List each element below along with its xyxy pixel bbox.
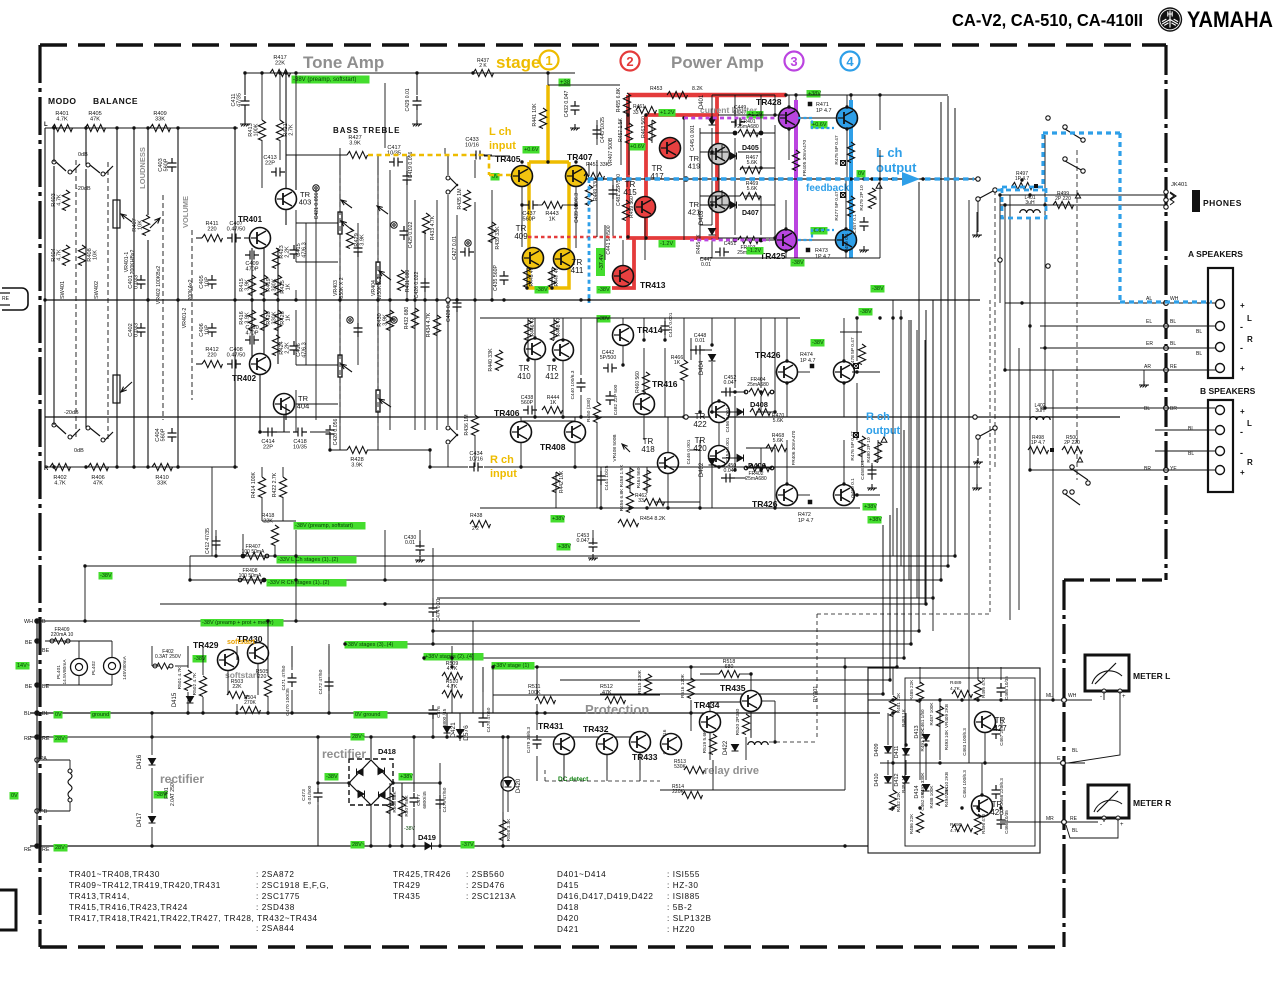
svg-text:C473: C473 [301, 789, 307, 801]
svg-text:C461 1/50: C461 1/50 [920, 709, 925, 731]
svg-text:TR413,TR414,: TR413,TR414, [69, 892, 130, 901]
svg-text:VR401-2: VR401-2 [182, 308, 188, 329]
wire fan vertical [896, 508, 898, 667]
svg-text:10/16: 10/16 [469, 457, 483, 463]
svg-text:0.47/50: 0.47/50 [227, 353, 246, 359]
svg-text:R: R [1247, 335, 1253, 344]
svg-text:BR: BR [1170, 406, 1177, 412]
wire junction speaker [1164, 346, 1169, 351]
wire -33V Rch bus [190, 579, 941, 581]
svg-text:0dB: 0dB [78, 152, 88, 158]
svg-text:5.6K: 5.6K [773, 438, 784, 444]
svg-text:D418: D418 [378, 747, 396, 756]
resistor R416 [248, 310, 255, 331]
marker R471 [808, 102, 813, 107]
svg-text:C441 5P/500: C441 5P/500 [606, 225, 612, 254]
voltage -37V [461, 841, 475, 849]
svg-text:input: input [489, 140, 516, 152]
svg-text:B: B [42, 619, 46, 625]
border frame jog [1064, 578, 1166, 581]
voltage -1.2V [659, 240, 676, 248]
svg-text:+0.6V: +0.6V [524, 147, 539, 153]
rectifier bridge wires [318, 782, 349, 784]
blue dashed path to speakers [1002, 187, 1046, 218]
svg-text:TR405: TR405 [495, 154, 521, 164]
svg-text:C425 0.022: C425 0.022 [408, 221, 414, 248]
svg-text:YAMAHA: YAMAHA [1187, 7, 1273, 32]
svg-text:BL: BL [1072, 828, 1078, 834]
diode D405 [730, 153, 737, 160]
svg-text:R459 560: R459 560 [629, 196, 635, 218]
wire L input bus [45, 127, 238, 129]
svg-text:R516 120K: R516 120K [680, 673, 686, 698]
svg-text:28V~: 28V~ [352, 842, 365, 848]
svg-text:R520 2P330: R520 2P330 [735, 708, 741, 735]
wire limiter bottom [718, 237, 775, 239]
xbox R475 [841, 161, 846, 166]
svg-text:14V~: 14V~ [17, 663, 30, 669]
resistor R409 [150, 124, 171, 131]
svg-text:R463 560: R463 560 [641, 116, 647, 138]
voltage -38V stages34 [345, 641, 408, 649]
svg-text:+: + [1240, 468, 1245, 477]
svg-text:47/6.3: 47/6.3 [302, 342, 308, 358]
wire junction speaker [1164, 468, 1169, 473]
stage-3 purple highlight line [794, 100, 798, 258]
voltage +38V bridge [399, 773, 413, 781]
diode D418d [358, 791, 365, 798]
svg-text:: 2SD476: : 2SD476 [466, 881, 505, 890]
stage marker 4 [841, 52, 860, 71]
wire power amp top rail [786, 94, 948, 96]
border frame right lower [1062, 580, 1065, 947]
diode D418b [379, 792, 386, 799]
capacitor C433 [471, 151, 485, 160]
svg-text:3.9K: 3.9K [245, 279, 251, 291]
svg-text:3uH: 3uH [1025, 200, 1035, 206]
svg-text:-: - [1240, 322, 1243, 332]
transistor TR406 [511, 422, 532, 443]
svg-text:R489: R489 [950, 680, 962, 686]
voltage -38V yellow [535, 286, 549, 294]
transistor TR423 blue [837, 108, 858, 129]
transistor TR403 [276, 189, 297, 210]
resistor R420 [260, 310, 267, 330]
resistor R412 [202, 360, 223, 367]
diode D403 [709, 229, 716, 236]
svg-text:BL: BL [24, 711, 31, 717]
wire bus [560, 679, 890, 681]
marker R472 [808, 500, 813, 505]
stage-4 blue highlight line [849, 100, 853, 258]
svg-text:BL: BL [42, 711, 49, 717]
svg-text:TR433: TR433 [632, 752, 658, 762]
wire VR404 linkage [377, 170, 379, 430]
svg-text:+38V: +38V [808, 91, 821, 97]
wire fan vertical [954, 108, 956, 556]
svg-text:C479 33/6.3: C479 33/6.3 [526, 727, 532, 753]
wire left edge vertical [36, 621, 38, 846]
svg-text:+38V stages (2)..(4): +38V stages (2)..(4) [425, 654, 474, 660]
svg-text:EL: EL [1146, 319, 1152, 325]
wire +38 top feed [245, 72, 575, 74]
svg-text:0.033: 0.033 [134, 323, 140, 337]
diode D401 [709, 119, 716, 126]
svg-text:5.6K: 5.6K [747, 186, 758, 192]
svg-text:C463 100/6.3: C463 100/6.3 [962, 728, 967, 756]
wire +38 spur [548, 84, 620, 86]
ground C430 [415, 556, 425, 562]
svg-text:+: + [1240, 301, 1245, 310]
resistor R415 [248, 275, 255, 296]
wire TR407-411 [575, 187, 577, 248]
svg-text:0V ground: 0V ground [355, 712, 380, 718]
svg-text:47/35: 47/35 [237, 93, 243, 107]
svg-text:PL402: PL402 [91, 661, 97, 675]
svg-text:C466 10/35: C466 10/35 [1004, 810, 1009, 834]
svg-text:403: 403 [299, 198, 312, 207]
relay contact after feedback line [976, 197, 980, 201]
ground C411 [240, 120, 250, 126]
svg-text:0.033: 0.033 [134, 275, 140, 289]
svg-text:PA: PA [40, 756, 47, 762]
svg-text:Power Amp: Power Amp [671, 53, 764, 72]
transistor TR417 [660, 138, 681, 159]
svg-text:ER: ER [1146, 341, 1153, 347]
ganged switch dashed linkage [75, 160, 77, 440]
svg-text:TR431: TR431 [538, 721, 564, 731]
svg-text:1P 4.7: 1P 4.7 [798, 518, 814, 524]
svg-text:L: L [1247, 419, 1252, 428]
transistor TR432 [597, 734, 618, 755]
svg-text:R465 1K: R465 1K [696, 234, 702, 254]
wire TR403 column [285, 73, 287, 188]
svg-text:A SPEAKERS: A SPEAKERS [1188, 249, 1243, 259]
svg-text:L: L [44, 122, 48, 128]
svg-text:3uH: 3uH [1035, 408, 1045, 414]
potentiometer VR403 body lower [338, 355, 342, 377]
right mid switches [998, 258, 1002, 262]
svg-text:4.7K: 4.7K [54, 481, 66, 487]
voltage -38V rect [154, 791, 168, 799]
fusible resistor FR402 [744, 466, 748, 470]
lamp PL402 [104, 658, 121, 675]
svg-text:R450 (330): R450 (330) [586, 398, 592, 422]
svg-text:560P: 560P [164, 158, 170, 171]
svg-text:: 2SC1775: : 2SC1775 [256, 892, 300, 901]
svg-text:AR: AR [1144, 364, 1151, 370]
diode D415 [187, 697, 194, 704]
svg-text:BE: BE [25, 684, 33, 690]
svg-text:R488 100K: R488 100K [929, 785, 934, 809]
wire +38V stages bus [424, 657, 904, 659]
transistor TR418 [658, 453, 679, 474]
svg-text:-37V: -37V [462, 842, 474, 848]
svg-text:0V: 0V [11, 793, 18, 799]
wire Rch coupling [484, 466, 510, 468]
diode D407 [730, 202, 737, 209]
svg-text:R502 4.7K: R502 4.7K [192, 672, 198, 695]
svg-text:1P 4.7: 1P 4.7 [800, 358, 816, 364]
xbox R477 [841, 193, 846, 198]
svg-text:220mA 10: 220mA 10 [51, 632, 74, 638]
svg-text:+38V: +38V [864, 504, 877, 510]
svg-text:10K: 10K [93, 250, 99, 260]
svg-text:0.01: 0.01 [695, 338, 705, 344]
svg-text:R478 5P 0.47: R478 5P 0.47 [850, 337, 856, 367]
svg-text:200KHBx2: 200KHBx2 [130, 249, 136, 274]
svg-text:47/6.3: 47/6.3 [302, 242, 308, 258]
svg-text:R495 470: R495 470 [981, 678, 986, 698]
svg-text:C474 0.01: C474 0.01 [436, 598, 442, 621]
LED D420 [501, 777, 515, 791]
fuse FR409 [50, 639, 54, 643]
svg-text:C435 560P: C435 560P [493, 264, 499, 290]
svg-text:25mA680: 25mA680 [745, 476, 767, 482]
protection box lines [493, 694, 660, 696]
svg-text:+38V: +38V [552, 516, 565, 522]
fuse F402 [153, 664, 157, 668]
svg-text:0.3AT 250V: 0.3AT 250V [155, 654, 182, 660]
transistor TR420 [709, 446, 730, 467]
transistor TR413 [613, 266, 634, 287]
wire DC detect dashed [545, 780, 660, 782]
pot VR404 wiper [377, 206, 388, 214]
svg-text:D415: D415 [172, 692, 178, 707]
svg-text:C446 0.001: C446 0.001 [686, 439, 692, 464]
svg-text:R460 560: R460 560 [635, 371, 641, 393]
svg-text:METER R: METER R [1133, 798, 1171, 808]
svg-text:TR429: TR429 [193, 640, 219, 650]
svg-text:BL: BL [1072, 748, 1078, 754]
svg-text:8.2K: 8.2K [692, 86, 703, 92]
transistor TR421 [709, 192, 730, 213]
wire R-ch signal bus [45, 416, 1120, 418]
svg-text:B SPEAKERS: B SPEAKERS [1200, 386, 1256, 396]
svg-text:-: - [1100, 822, 1102, 828]
potentiometer VR401-1 [113, 200, 120, 228]
resistor R405 [85, 124, 106, 131]
capacitor C410 [245, 336, 259, 345]
svg-text:D421: D421 [450, 722, 457, 738]
fusible resistor FR401 [733, 131, 737, 135]
blue dashed R471 link [798, 118, 834, 128]
wire L-ch output feedback [575, 178, 978, 180]
svg-text:WH: WH [24, 619, 33, 625]
resistor R426 [274, 310, 281, 330]
svg-text:R: R [1247, 458, 1253, 467]
protection base wires [563, 755, 565, 781]
xbox R478 [854, 364, 859, 369]
phones feed wires [1040, 194, 1166, 196]
svg-text:R433 4.7K: R433 4.7K [430, 215, 436, 240]
wire protection right [844, 658, 846, 790]
voltage +38V stages24 [424, 653, 484, 661]
voltage -38V preamp2 [294, 522, 366, 530]
svg-text:-33V R Ch stages (1)..(2): -33V R Ch stages (1)..(2) [268, 580, 330, 586]
ground relay1 [972, 231, 982, 237]
svg-text:D410: D410 [874, 773, 880, 786]
fusible resistor FR407 [241, 554, 245, 558]
svg-text:1K: 1K [286, 314, 292, 321]
capacitor C434 [469, 463, 483, 472]
wire speaker to meter vertical [1052, 370, 1054, 700]
svg-text:-20dB: -20dB [64, 410, 79, 416]
svg-text:220: 220 [207, 353, 216, 359]
wire relay dashed run [817, 613, 990, 615]
ground C458 [867, 484, 877, 490]
svg-text:R436 1M: R436 1M [464, 414, 470, 435]
svg-text:+1.2V: +1.2V [660, 110, 675, 116]
wire left supply vertical [84, 566, 86, 621]
capacitor C424b [354, 323, 363, 337]
svg-text:R440 33K: R440 33K [488, 348, 494, 372]
switch SW401 contacts [52, 160, 56, 164]
svg-text:R438: R438 [470, 513, 483, 519]
svg-text:D576: D576 [463, 725, 470, 741]
svg-text:C470 100/35: C470 100/35 [285, 688, 291, 716]
blue dashed through R497 [997, 189, 1048, 192]
svg-text:47K: 47K [93, 481, 103, 487]
svg-text:D409: D409 [874, 743, 880, 756]
svg-text:415: 415 [623, 188, 637, 197]
svg-text:Protection: Protection [585, 702, 649, 717]
wire tone verticals [339, 148, 341, 170]
svg-text:R501 4.7K: R501 4.7K [177, 666, 183, 689]
svg-text:TR435: TR435 [720, 683, 746, 693]
svg-text:428: 428 [990, 808, 1004, 817]
svg-text:10P: 10P [205, 325, 211, 335]
supply mid wires [432, 598, 434, 602]
svg-text:2.7K: 2.7K [289, 124, 295, 136]
potentiometer VR402 [150, 218, 160, 228]
svg-text:0V: 0V [55, 712, 62, 718]
svg-text:+: + [1240, 364, 1245, 373]
svg-text:FR405 30mA470: FR405 30mA470 [802, 140, 808, 177]
svg-text:4.7K: 4.7K [57, 249, 63, 261]
wire -38V rch rail [480, 317, 800, 319]
voltage -38V stage2 [597, 286, 611, 294]
open junction circles [684, 177, 688, 181]
svg-text:RE: RE [42, 736, 50, 742]
transistor TR426 lower [777, 485, 798, 506]
wire junction speaker [1164, 368, 1169, 373]
svg-text:Tone Amp: Tone Amp [303, 53, 384, 72]
transistor TR414 [613, 325, 634, 346]
svg-text:R451 33K: R451 33K [586, 162, 610, 168]
svg-text:421: 421 [688, 208, 701, 217]
fusible resistor FR403 [733, 238, 737, 242]
svg-text:+38V: +38V [400, 774, 413, 780]
svg-text:TR408: TR408 [540, 442, 566, 452]
voltage -1.2V limiter [747, 247, 764, 255]
resistor R429 [346, 228, 353, 248]
svg-text:+38V: +38V [558, 544, 571, 550]
wire input left vertical [44, 128, 46, 467]
svg-text:4: 4 [846, 54, 854, 69]
wire junction speaker [1164, 406, 1169, 411]
capacitor C405 [208, 275, 217, 289]
svg-text:-1.2V: -1.2V [660, 241, 673, 247]
svg-text:R454 8.2K: R454 8.2K [640, 516, 666, 522]
svg-text:C456 0.001: C456 0.001 [725, 407, 731, 432]
transistor TR433 [630, 732, 651, 753]
transistor TR410 [525, 339, 546, 360]
capacitor C406 [208, 323, 217, 337]
svg-text:0.047: 0.047 [577, 538, 590, 544]
svg-text:TR401~TR408,TR430: TR401~TR408,TR430 [69, 870, 160, 879]
svg-text:-38V: -38V [100, 573, 112, 579]
transistor TR404 [274, 394, 295, 415]
svg-text:: HZ20: : HZ20 [667, 925, 695, 934]
svg-text:22P: 22P [263, 445, 273, 451]
svg-text:R453: R453 [650, 86, 663, 92]
meter L [1085, 655, 1129, 691]
svg-text:270K: 270K [244, 700, 256, 706]
svg-text:TR426: TR426 [755, 350, 781, 360]
capacitor C414 [263, 428, 277, 437]
transistor TR416 [634, 394, 655, 415]
svg-text:R434 4.7K: R434 4.7K [426, 312, 432, 337]
voltage +38V rch [551, 515, 565, 523]
svg-text:3.9K: 3.9K [360, 234, 366, 246]
svg-text:+0.6V: +0.6V [630, 144, 645, 150]
svg-text:R479 2P 10: R479 2P 10 [859, 185, 865, 211]
svg-text:3.9K: 3.9K [383, 314, 389, 326]
svg-text:BE: BE [42, 648, 50, 654]
svg-text:: ISI555: : ISI555 [667, 870, 700, 879]
meter R [1088, 785, 1129, 818]
svg-text:47K: 47K [90, 117, 100, 123]
svg-text:SW402: SW402 [94, 281, 100, 299]
svg-text:PB: PB [40, 809, 48, 815]
voltage -33V Lch [277, 556, 357, 564]
wire power amp bottom rail [700, 257, 880, 259]
svg-text:rectifier: rectifier [160, 772, 204, 786]
svg-text:R449 330: R449 330 [593, 179, 599, 201]
capacitor C403 [168, 158, 177, 172]
wire phones R [1000, 204, 1166, 206]
svg-text:TR425,TR426: TR425,TR426 [393, 870, 451, 879]
svg-text:3.9K: 3.9K [245, 312, 251, 324]
svg-text:D411: D411 [894, 746, 900, 759]
svg-text:220: 220 [258, 674, 267, 680]
svg-text:6800/45: 6800/45 [422, 791, 428, 809]
svg-text:VR408 500B: VR408 500B [612, 434, 618, 461]
capacitor C411 [241, 96, 250, 110]
svg-text:VR402 100KBx2: VR402 100KBx2 [156, 266, 162, 304]
svg-text:1K: 1K [550, 400, 557, 406]
svg-text:-38V: -38V [812, 340, 824, 346]
voltage -38V rch3 [811, 339, 825, 347]
capacitor C437 [524, 201, 538, 210]
stage marker 1 [540, 51, 559, 70]
wire -38V stages bus [433, 630, 919, 632]
wire -33V Lch bus [190, 555, 955, 557]
svg-text:output: output [866, 425, 901, 437]
diode D419 [425, 843, 432, 850]
resistor R425 [274, 275, 281, 295]
svg-text:422: 422 [693, 420, 707, 429]
svg-text:C457 0.1: C457 0.1 [852, 214, 858, 234]
svg-text:R483 1K: R483 1K [901, 708, 906, 727]
wire C411 top [244, 73, 246, 95]
svg-text:R515 330K: R515 330K [637, 669, 643, 694]
svg-text:RE: RE [1070, 816, 1078, 822]
transistor TR428 [779, 108, 800, 129]
voltage 0V left [54, 711, 63, 719]
transistor TR425 [776, 230, 797, 251]
